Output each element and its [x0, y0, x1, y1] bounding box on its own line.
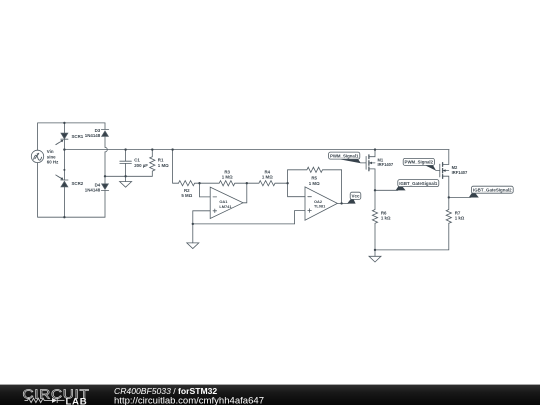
svg-text:1 MΩ: 1 MΩ — [309, 181, 320, 186]
wire diode branch with hop over rail — [104, 123, 106, 217]
svg-text:5 MΩ: 5 MΩ — [181, 193, 192, 198]
resistor R1 — [150, 150, 155, 177]
svg-text:IRF1407: IRF1407 — [452, 170, 468, 175]
op-amp OA2 — [305, 187, 337, 220]
label R1 — [158, 157, 169, 168]
svg-text:1 MΩ: 1 MΩ — [262, 175, 273, 180]
svg-text:1N4148: 1N4148 — [85, 188, 101, 193]
resistor R5 — [288, 167, 342, 172]
net flag PWM_Signal2 — [403, 158, 436, 170]
junction SCR1 cathode / rail1 — [63, 148, 65, 150]
wire left loop top — [38, 123, 105, 150]
diode D4 — [101, 184, 108, 191]
label M1 — [378, 157, 394, 167]
svg-text:Vcc: Vcc — [351, 194, 360, 199]
label OA1 — [219, 199, 232, 209]
junction ground rail — [192, 223, 194, 225]
label D4 — [85, 182, 101, 192]
junction R2 feed — [171, 148, 173, 150]
net flag IGBT_GateSignal1 — [396, 180, 439, 191]
wire hop arc — [105, 147, 107, 152]
svg-text:1 kΩ: 1 kΩ — [455, 216, 465, 221]
svg-text:1 MΩ: 1 MΩ — [158, 163, 169, 168]
label D3 — [85, 128, 101, 138]
junction M1 source node — [374, 189, 376, 191]
wire rail1 corner to M2 drain — [448, 150, 450, 165]
svg-text:http://circuitlab.com/cmfyhh4a: http://circuitlab.com/cmfyhh4afa647 — [114, 396, 264, 405]
node between SCR1 and SCR2 — [63, 169, 65, 171]
svg-text:IGBT_GateSignal2: IGBT_GateSignal2 — [473, 188, 512, 193]
wire M2 source to gate-signal node — [449, 196, 471, 198]
resistor R6 — [372, 190, 377, 250]
junction OA1 output node — [246, 182, 248, 184]
svg-text:200 µF: 200 µF — [134, 163, 148, 168]
label V1 value — [47, 149, 59, 164]
label M2 — [452, 165, 468, 175]
junction top rail / SCR branch — [63, 122, 65, 124]
wire SCR branch — [63, 123, 65, 217]
label R7 — [455, 210, 465, 220]
resistor R7 — [446, 197, 451, 223]
svg-text:CR400BF5033 / forSTM32: CR400BF5033 / forSTM32 — [114, 386, 217, 396]
svg-text:IGBT_GateSignal1: IGBT_GateSignal1 — [399, 181, 437, 186]
label R6 — [381, 210, 391, 220]
transistor M2 (NMOS) — [436, 163, 449, 198]
logo wire glyph — [25, 398, 65, 403]
svg-text:PWM_Signal1: PWM_Signal1 — [330, 153, 359, 158]
wire ground stub — [192, 224, 194, 243]
svg-text:SCR2: SCR2 — [72, 181, 84, 186]
svg-text:1 kΩ: 1 kΩ — [381, 216, 391, 221]
diode D3 — [101, 129, 108, 136]
svg-text:C1: C1 — [134, 157, 140, 162]
capacitor C1 — [120, 150, 132, 177]
wire rail1 (rectifier + output) — [64, 149, 449, 151]
svg-text:60 Hz: 60 Hz — [47, 159, 59, 164]
label C1 — [134, 157, 148, 168]
svg-text:LM741: LM741 — [219, 204, 232, 209]
wire OA2 inverting node — [288, 170, 305, 197]
svg-text:LAB: LAB — [66, 396, 88, 405]
wire bottom right rail — [375, 223, 449, 250]
svg-text:1N4148: 1N4148 — [85, 133, 101, 138]
junction C1 bottom — [124, 175, 126, 177]
junction dots — [63, 122, 450, 251]
junction OA1 inverting node — [198, 182, 200, 184]
net flag PWM_Signal1 — [329, 152, 361, 163]
label R4 — [262, 169, 273, 179]
junction OA2 output node — [340, 202, 342, 204]
svg-text:TL081: TL081 — [314, 204, 326, 209]
wire R2 feed — [173, 150, 179, 184]
wire R2/R3 node to OA1 inverting input — [200, 183, 211, 197]
thyristor SCR2 — [56, 175, 68, 187]
net flag IGBT_GateSignal2 — [469, 186, 513, 197]
svg-text:SCR1: SCR1 — [72, 134, 84, 139]
wire OA2 output — [337, 202, 348, 204]
label R2 — [181, 188, 192, 198]
junction bottom rail / SCR branch — [63, 216, 65, 218]
footer bar — [0, 384, 540, 405]
label OA2 — [314, 199, 326, 209]
ground G2 — [187, 243, 199, 249]
junction R1 top — [151, 148, 153, 150]
wire M1 source to gate-signal node — [375, 189, 398, 191]
junction OA2 inverting node — [286, 182, 288, 184]
svg-text:PWM_Signal2: PWM_Signal2 — [405, 160, 434, 165]
junction M2 source node — [448, 196, 450, 198]
junction M1 drain — [374, 148, 376, 150]
ground G1 — [120, 176, 132, 187]
resistor R3 — [200, 181, 247, 186]
svg-text:R1: R1 — [158, 157, 164, 162]
thyristor SCR1 — [56, 133, 68, 144]
svg-text:1 MΩ: 1 MΩ — [222, 175, 233, 180]
ground G3 — [369, 250, 381, 262]
label R3 — [222, 169, 233, 179]
wire OA1 + input to ground rail — [193, 211, 210, 224]
junction R6 bottom / ground — [374, 249, 376, 251]
transistor M1 (NMOS) — [361, 150, 375, 191]
wire rail2 (mid reference) — [105, 175, 152, 177]
resistor R4 — [247, 181, 288, 186]
op-amp OA1 — [210, 187, 243, 218]
resistor R2 — [179, 181, 200, 186]
svg-text:IRF1407: IRF1407 — [378, 162, 394, 167]
wire left loop bottom — [38, 163, 105, 218]
voltage source V1 — [31, 150, 43, 162]
wire OA2 + input to ground rail — [295, 211, 306, 224]
wire R5 to OA2 output node — [341, 170, 343, 204]
net flag Vcc — [347, 192, 361, 203]
wire OA1 output to feedback node — [243, 183, 247, 203]
junction C1 top — [124, 148, 126, 150]
wire ground rail — [193, 223, 295, 225]
junction diode branch / rail2 — [104, 175, 106, 177]
label R5 — [309, 176, 320, 186]
